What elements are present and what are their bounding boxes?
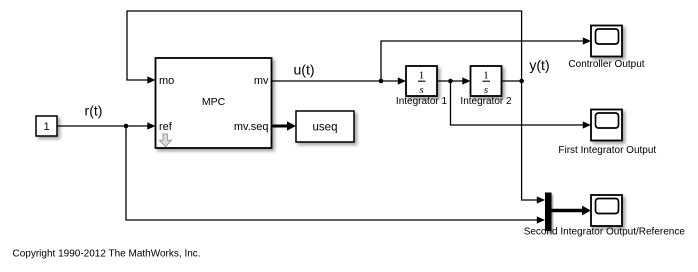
- svg-text:MPC: MPC: [202, 96, 226, 108]
- arrowhead into MPC mo: [147, 76, 155, 83]
- useq block: [296, 111, 354, 142]
- svg-text:y(t): y(t): [529, 57, 549, 73]
- arrowhead into mux input 2: [537, 216, 545, 223]
- svg-text:mo: mo: [159, 75, 174, 87]
- node junction on r(t) wire: [124, 124, 129, 129]
- svg-text:1: 1: [419, 70, 425, 82]
- svg-text:1: 1: [43, 121, 49, 133]
- wire r(t) branch down to mux input 2: [126, 126, 539, 220]
- icon gray down-arrow inside MPC block: [160, 134, 172, 147]
- scope block First Integrator Output: [591, 110, 622, 141]
- arrowhead thick into useq: [287, 121, 296, 130]
- svg-text:mv.seq: mv.seq: [234, 121, 269, 133]
- node junction between integrators: [448, 79, 453, 84]
- arrowhead into Controller Output scope: [583, 37, 591, 44]
- wire y(t) down to mux input 1: [522, 81, 539, 200]
- arrowhead into mux input 1: [537, 196, 545, 203]
- MPC controller block U1: [156, 58, 272, 148]
- mux Mux1: [545, 193, 552, 232]
- svg-text:Integrator 2: Integrator 2: [460, 96, 512, 107]
- svg-text:1: 1: [483, 70, 489, 82]
- wire u(t) branch up to Controller Output scope: [381, 41, 585, 81]
- wire r(t): constant to ref port: [57, 125, 149, 127]
- wire thick mv.seq to useq: [272, 125, 289, 128]
- svg-text:Second Integrator Output/Refer: Second Integrator Output/Reference: [524, 227, 686, 238]
- scope block Second Integrator Output/Reference: [591, 195, 622, 226]
- svg-text:s: s: [484, 84, 488, 96]
- wire Integrator 2 out to y(t) node: [502, 80, 522, 82]
- svg-text:useq: useq: [313, 122, 338, 134]
- svg-text:First Integrator Output: First Integrator Output: [558, 145, 656, 156]
- integrator block 2: [471, 66, 502, 96]
- constant block value 1: [36, 116, 57, 136]
- arrowhead thick into Second Integrator Output scope: [582, 206, 591, 216]
- arrowhead into MPC ref: [147, 122, 155, 129]
- integrator block 1: [406, 66, 437, 96]
- svg-text:s: s: [419, 84, 423, 96]
- node junction on u(t) wire: [379, 79, 384, 84]
- svg-text:ref: ref: [159, 121, 173, 133]
- wire u(t): MPC mv to Integrator 1: [272, 80, 400, 82]
- svg-text:mv: mv: [254, 75, 269, 87]
- wire feedback y(t) to MPC mo port: [127, 11, 522, 81]
- scope block Controller Output: [591, 26, 622, 57]
- svg-text:u(t): u(t): [294, 61, 315, 77]
- svg-text:Copyright 1990-2012 The MathWo: Copyright 1990-2012 The MathWorks, Inc.: [13, 249, 201, 260]
- arrowhead into Integrator 1: [398, 77, 406, 84]
- wire Integrator 1 out to Integrator 2: [437, 80, 464, 82]
- arrowhead into First Integrator Output scope: [583, 121, 591, 128]
- node y(t) junction: [519, 79, 524, 84]
- wire branch down to First Integrator Output scope: [451, 81, 585, 125]
- arrowhead into Integrator 2: [462, 77, 470, 84]
- svg-text:Integrator 1: Integrator 1: [396, 96, 448, 107]
- svg-text:Controller Output: Controller Output: [568, 59, 644, 70]
- svg-text:r(t): r(t): [85, 102, 103, 118]
- wire thick mux output to scope: [552, 209, 584, 212]
